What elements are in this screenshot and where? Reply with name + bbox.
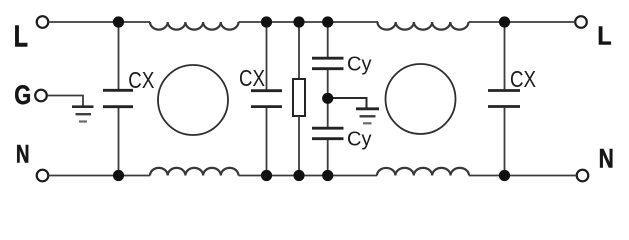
terminal N left [37, 170, 49, 182]
svg-text:Cy: Cy [347, 54, 371, 76]
capacitor CX3 lead top [504, 22, 506, 89]
capacitor CX3 plate top [488, 89, 520, 92]
svg-text:L: L [14, 19, 28, 54]
ground middle bar3 [363, 122, 372, 124]
ground middle bar1 [356, 107, 379, 110]
inductor bottom-right [377, 168, 469, 176]
wire top rail middle segment [239, 21, 379, 23]
capacitor CX2 lead top [266, 22, 268, 90]
svg-text:CX: CX [128, 67, 154, 93]
capacitor CX1 lead top [118, 22, 120, 89]
junction bottom rail 2 [261, 170, 272, 181]
svg-text:L: L [597, 23, 611, 51]
junction bottom rail 4 [322, 170, 333, 181]
capacitor Cy1 plate bottom [312, 67, 344, 70]
capacitor Cy1 lead top [327, 22, 329, 57]
svg-text:N: N [16, 140, 30, 168]
wire top rail left segment [49, 21, 151, 23]
capacitor CX3 plate bottom [488, 105, 520, 108]
wire Cy midpoint to ground [328, 98, 367, 108]
capacitor CX3 lead bottom [504, 108, 506, 176]
capacitor CX2 plate top [251, 89, 282, 92]
wire bottom rail right segment [469, 175, 577, 177]
svg-text:N: N [599, 143, 614, 173]
junction top rail 1 [113, 16, 124, 27]
junction top rail 4 [322, 16, 333, 27]
junction bottom rail 5 [499, 170, 510, 181]
ground left bar2 [76, 113, 92, 115]
terminal L right [575, 16, 587, 28]
junction Cy midpoint [322, 93, 333, 104]
common-mode choke core left [158, 65, 228, 135]
capacitor Cy2 lead bottom [327, 140, 329, 176]
junction top rail 2 [261, 16, 272, 27]
junction bottom rail 1 [113, 170, 124, 181]
terminal N right [577, 170, 589, 182]
ground middle bar2 [360, 115, 376, 117]
capacitor Cy1 lead bottom [327, 70, 329, 128]
wire top rail right segment [469, 21, 576, 23]
capacitor Cy2 plate top [312, 127, 344, 130]
svg-text:CX: CX [239, 65, 265, 91]
junction top rail 3 [293, 16, 304, 27]
junction top rail 5 [499, 16, 510, 27]
resistor R lead top [298, 22, 300, 79]
svg-text:CX: CX [510, 66, 536, 92]
svg-text:Cy: Cy [347, 129, 371, 151]
svg-text:G: G [14, 80, 31, 110]
capacitor CX1 plate top [103, 89, 133, 92]
common-mode choke core right [386, 64, 456, 134]
terminal G [35, 90, 47, 102]
resistor R lead bottom [298, 116, 300, 176]
wire G to ground [48, 96, 84, 107]
terminal L left [37, 16, 49, 28]
capacitor CX2 lead bottom [266, 108, 268, 176]
wire bottom rail left segment [49, 175, 151, 177]
capacitor Cy2 plate bottom [312, 137, 344, 140]
inductor top-left [150, 22, 238, 30]
inductor bottom-left [150, 168, 238, 176]
capacitor CX1 plate bottom [103, 105, 133, 108]
ground left bar1 [72, 105, 94, 108]
capacitor Cy1 plate top [312, 57, 344, 60]
capacitor CX2 plate bottom [251, 105, 282, 108]
ground left bar3 [79, 120, 87, 122]
capacitor CX1 lead bottom [118, 108, 120, 176]
resistor R body [293, 79, 305, 116]
junction bottom rail 3 [293, 170, 304, 181]
wire bottom rail middle segment [239, 175, 378, 177]
inductor top-right [378, 22, 469, 30]
